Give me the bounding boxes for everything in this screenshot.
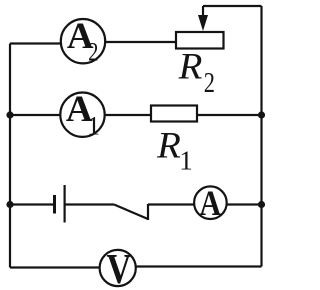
ammeter A1	[60, 89, 104, 141]
svg-text:1: 1	[179, 146, 193, 176]
wire row1 right (A2 to R2)	[104, 41, 176, 43]
wire row1 left (left bus to A2)	[10, 42, 62, 44]
svg-text:2: 2	[204, 68, 215, 99]
wire row2 right (R1 to right bus)	[197, 114, 262, 116]
ammeter A2	[61, 16, 105, 67]
wire row2 middle (A1 to R1)	[104, 114, 151, 116]
wire row2 left (left bus to A1)	[10, 114, 61, 116]
node junction left row2	[6, 111, 13, 118]
node junction right row3	[258, 201, 265, 208]
node junction right row2	[258, 111, 265, 118]
voltmeter V	[100, 247, 136, 290]
battery cell negative plate (short)	[53, 195, 56, 214]
svg-text:R: R	[156, 126, 181, 167]
resistor R1 body	[151, 106, 197, 122]
svg-text:R: R	[178, 46, 203, 87]
wire top-right (R2 wiper to right bus)	[203, 5, 262, 7]
wire row3 (left bus to battery)	[10, 203, 55, 205]
rheostat R2 body	[176, 32, 224, 49]
switch S blade	[114, 204, 148, 220]
wire left vertical bus	[9, 44, 11, 268]
battery cell positive plate (long)	[63, 185, 65, 223]
wire row3 (A to right bus)	[226, 203, 262, 205]
svg-text:A: A	[199, 184, 221, 224]
wire bottom right (V to right bus)	[135, 265, 262, 267]
wire bottom left (left bus to V)	[10, 266, 100, 268]
rheostat R2 wiper arrow	[198, 6, 208, 31]
svg-text:2: 2	[88, 38, 98, 67]
wire row3 (battery to switch)	[65, 203, 114, 205]
wire right vertical bus	[260, 6, 262, 267]
label R1	[156, 126, 193, 176]
svg-text:1: 1	[87, 112, 100, 141]
ammeter A	[194, 184, 227, 224]
node junction left row3	[6, 201, 13, 208]
label R2	[178, 46, 215, 98]
wire row3 (switch to A)	[148, 203, 195, 205]
svg-text:V: V	[106, 247, 131, 290]
